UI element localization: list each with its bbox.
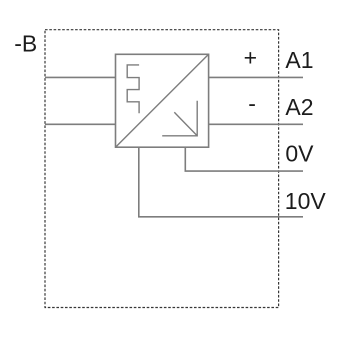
- converter diagonal divider: [116, 54, 209, 147]
- D/A converter block U1: [116, 54, 209, 147]
- digital signal symbol (square wave): [127, 65, 139, 113]
- svg-text:-B: -B: [14, 31, 37, 57]
- wire 10V: [139, 147, 303, 217]
- svg-text:10V: 10V: [285, 188, 327, 214]
- analog signal symbol (ramp with axes): [162, 101, 197, 136]
- wire A2 right segment: [209, 123, 303, 125]
- enclosure dashed boundary -B: [45, 30, 279, 308]
- svg-text:A2: A2: [285, 94, 313, 120]
- wire A1 right segment: [209, 76, 303, 78]
- wire 0V: [185, 147, 303, 171]
- wire A1 left segment: [45, 76, 116, 78]
- wire A2 left segment: [45, 123, 116, 125]
- svg-text:A1: A1: [285, 47, 313, 73]
- svg-text:+: +: [244, 45, 257, 71]
- svg-text:-: -: [248, 91, 256, 117]
- svg-text:0V: 0V: [285, 140, 314, 166]
